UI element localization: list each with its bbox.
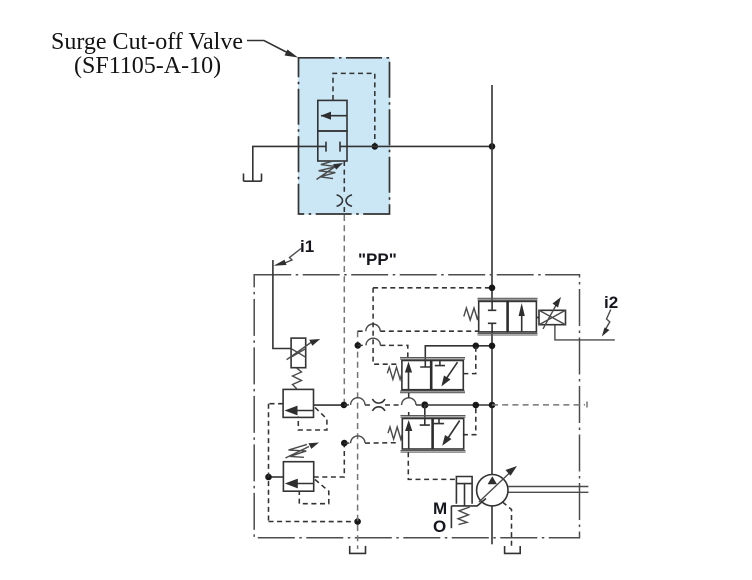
wire row405 solid to main [425,404,492,406]
V1 up arrow [408,366,410,390]
V1 double line above [400,358,465,360]
wire main line right of surge valve [347,145,492,147]
pump flow triangle [488,476,497,484]
bottom drain dashed row [269,521,358,523]
throttle adjust arrow [287,341,313,360]
V1 blocked port T left [420,361,430,368]
V1 double line below [400,391,465,393]
wire R2 inlet left [269,476,284,478]
U1 double line below [478,333,538,335]
adjustable spring below surge valve [319,161,337,179]
U1 spring [464,308,479,320]
surge valve enclosure (blue box) [298,57,390,214]
spring between throttle and relief valve R1 [293,368,302,389]
i2 leader zigzag arrow [605,310,611,332]
i1 leader zigzag arrow [281,249,301,265]
pilot row443 dashed to V2 spring [344,442,397,444]
node row405 pilot junction [473,402,480,409]
drain row to unloader spring chamber [358,330,479,332]
V2 blocked port T left [420,419,430,426]
node PP junction upper [341,402,348,409]
wire through lower square [318,145,347,147]
pilot link V1 bottom to V2 top dashed [408,393,410,416]
stroking cylinder [456,477,472,504]
M O port line [450,506,452,528]
V2 pilot dashed right [463,405,476,435]
V2 spring [388,427,402,439]
node main line junction row345 [489,343,496,350]
pilot dashed from valve bottom down [343,161,345,194]
V2 up arrow [408,425,410,450]
pump shaft double line [508,487,588,493]
orifice in surge box [337,195,343,207]
U1 blocked port T top [488,301,496,310]
throttle connector [536,317,539,319]
blocked port ticks in lower square [326,142,340,152]
wire upper valve port to main line [425,346,492,361]
U1 double line above [478,298,538,300]
surge valve flow arrow (left) [321,115,347,117]
node row405 port junction [421,401,428,408]
hop over x373 on row331 [366,324,380,331]
variable throttle i1 (square with X) [291,338,306,368]
row405 dashed to right border [492,402,587,411]
left drain dashed vertical [268,404,270,522]
R2 vent loop dashed [299,480,329,504]
unloader valve U1 body left square [479,301,508,332]
unloader valve U1 body right square [508,301,537,332]
upper prop valve V1 body [402,361,463,390]
V1 diagonal arrow [444,362,458,382]
surge valve body lower square [318,131,347,161]
wire main vertical pressure line [491,85,493,301]
tank symbol bottom right [505,546,521,553]
pump drain dashed [503,502,512,546]
pump variable arrow [479,473,510,503]
relief valve R1 [283,389,313,417]
main block boundary [254,275,579,538]
drain line vertical to tank [357,331,359,549]
V1 pilot dashed right [463,346,476,374]
node row405 main junction [489,402,496,409]
V2 double line below [401,451,466,453]
pilot dashed continues below orifice (PP line) [343,207,345,215]
pilot row287 dashed [373,287,492,289]
U1 up arrow right square [521,306,523,332]
pilot dashed line inside surge box [333,73,375,146]
pilot vertical x373 [373,288,397,364]
wire i2 line [555,325,615,340]
leader arrowhead [285,50,299,58]
U1 blocked port T bottom [488,323,496,332]
wire V2 port down from row405 [424,405,426,419]
node PP junction lower [341,440,348,447]
V1 blocked port T right [435,361,445,366]
R1 pilot dashed left [269,403,284,405]
svg-text:"PP": "PP" [358,250,397,269]
R2 pilot from PP dashed [314,443,345,477]
control spring [458,507,470,525]
leader line to surge valve box [247,41,292,56]
hop over x408 on row405 [402,398,416,405]
tank symbol top left [244,174,262,182]
R1 vent loop dashed [298,408,327,431]
node port-pilot junction [473,343,480,350]
svg-text:i2: i2 [604,293,618,312]
svg-text:Surge Cut-off Valve: Surge Cut-off Valve [51,29,243,55]
variable throttle at U1 right [539,310,566,324]
svg-text:(SF1105-A-10): (SF1105-A-10) [74,53,221,79]
hop over drain on row405 [351,398,365,405]
V2 blocked port T right [434,419,444,424]
control lever [451,499,486,506]
hop over x373 on row345 [366,338,380,345]
pilot row405: dashed with hops and orifice [344,404,425,406]
pilot row345 dashed from drain to upper valve [358,345,408,357]
V2 double line above [401,416,466,418]
wire R1 outlet solid [314,404,344,406]
svg-text:i1: i1 [300,237,314,256]
relief valve R2 [283,462,313,492]
tank symbol bottom center [350,546,366,554]
V2 diagonal arrow [446,421,460,442]
node row287 junction [489,285,496,292]
piston rod [464,484,466,506]
wire main line left of surge valve [253,146,318,181]
node main line junction [489,143,496,150]
svg-text:M: M [433,499,447,518]
V1 spring [387,367,402,379]
orifice on row405 [372,399,385,403]
node drain-pilot junction [355,342,362,349]
node drain junction [354,518,361,525]
throttle adjust arrow [543,303,558,329]
hop over drain on row443 [351,436,365,443]
lower prop valve V2 body [402,419,463,450]
surge valve body upper square [318,100,347,131]
pump P1 circle [477,475,508,506]
node R2 left junction [265,474,272,481]
cylinder piston [456,483,472,485]
adjustable spring above relief valve R2 [289,444,307,457]
wire i1 line [273,260,291,349]
V2 bottom port dashed to pump cylinder [408,452,456,479]
node pilot junction in surge box [372,143,379,150]
svg-text:O: O [433,517,446,536]
